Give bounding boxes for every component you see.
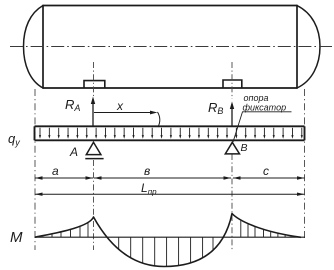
svg-text:B: B (241, 142, 248, 154)
svg-text:x: x (116, 99, 124, 113)
right extension line (dashed vertical) (304, 89, 306, 240)
svg-text:c: c (263, 164, 269, 178)
dimension x line with arrow (94, 111, 158, 115)
distributed load arrows (39, 128, 303, 139)
svg-text:опора: опора (244, 93, 269, 103)
left extension line (dashed vertical) (34, 89, 36, 250)
moment hatching right (span c) (241, 220, 285, 237)
svg-text:в: в (144, 164, 150, 178)
dimension line a (35, 176, 93, 179)
moment diagram baseline (35, 236, 306, 238)
tank horizontal centerline (10, 46, 333, 48)
saddle support left (84, 81, 105, 88)
dimension line в (94, 176, 231, 179)
svg-text:M: M (10, 229, 23, 246)
support A triangle (86, 142, 101, 154)
moment curve (35, 214, 301, 267)
support A ground line (85, 158, 103, 160)
support B triangle (225, 142, 239, 154)
svg-text:a: a (52, 164, 59, 178)
moment hatching left (span a) (52, 223, 88, 238)
moment hatching middle (sag) (119, 237, 213, 266)
leader line (233, 112, 292, 142)
support B centerline (dash-dot vertical) (231, 62, 233, 99)
tank shell body (43, 6, 297, 89)
reaction arrow R_B (230, 102, 234, 127)
svg-text:A: A (69, 145, 78, 159)
section mark (158, 112, 160, 127)
reaction arrow R_A (91, 97, 95, 127)
tank left head (24, 6, 44, 89)
saddle support right (223, 80, 242, 88)
svg-text:фиксатор: фиксатор (243, 103, 287, 113)
beam strip (distributed load band) (35, 126, 305, 140)
dimension line c (233, 176, 305, 179)
support A centerline (dash-dot vertical) (93, 62, 95, 96)
tank right head (297, 6, 320, 89)
dimension line L_pr (35, 193, 305, 196)
